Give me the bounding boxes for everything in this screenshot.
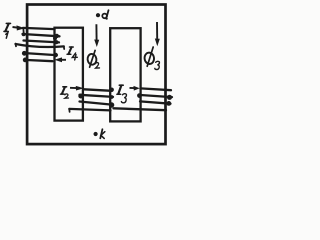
winding W1 turn 4	[16, 44, 64, 47]
label I4	[67, 47, 77, 60]
winding W2 loop dots	[78, 94, 83, 99]
winding W3 turn 1	[141, 88, 172, 90]
node d label	[102, 10, 108, 18]
node k label	[100, 129, 105, 138]
node k dot	[94, 132, 98, 136]
winding W2 turn 4	[69, 109, 110, 111]
winding W2 turn 3	[80, 102, 110, 105]
winding W1 turn 1	[23, 28, 55, 29]
winding W1 loop dots right	[55, 34, 59, 38]
label I1	[4, 23, 11, 38]
winding W2 turn 4 lead hook	[68, 109, 70, 112]
winding W2 turn 1	[84, 89, 112, 91]
winding W3 turn 3	[140, 101, 171, 103]
winding W1 turn 5	[24, 53, 57, 55]
current arrow I1	[13, 25, 26, 30]
winding W1 turn 2	[23, 34, 60, 36]
core window right	[110, 28, 140, 121]
winding W3 loop dots	[137, 93, 142, 98]
core window left	[55, 28, 83, 121]
winding W3 turn 4	[114, 108, 167, 110]
current arrow I3	[130, 86, 140, 91]
label I3	[117, 85, 127, 103]
winding W1 loop dots left	[22, 33, 26, 37]
flux arrow Phi2	[94, 24, 99, 47]
flux arrow Phi3	[155, 22, 160, 46]
node d dot	[96, 13, 100, 17]
winding W3 turn 2	[139, 95, 173, 97]
label Phi2	[87, 50, 100, 68]
winding W1 turn1-turn2 left connector	[22, 28, 25, 34]
core outer outline	[27, 5, 165, 145]
current arrow I2	[70, 86, 84, 91]
winding W1 turn 6	[25, 60, 53, 61]
label I2	[61, 87, 69, 98]
winding W3 (right limb, I3)	[114, 88, 173, 110]
current arrow I4 (pointing left)	[54, 57, 66, 62]
winding W1 turn 4 right hook	[63, 46, 65, 49]
winding W1 turn 4 lead-out	[15, 44, 18, 47]
winding W1 turn 3	[24, 41, 60, 43]
winding W2 (middle limb, I2)	[69, 89, 113, 112]
label Phi3	[144, 47, 160, 70]
winding W2 turn 2	[80, 95, 114, 97]
